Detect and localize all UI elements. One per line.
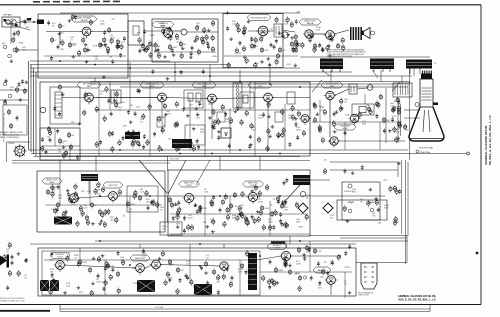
svg-text:.01: .01 bbox=[130, 105, 134, 107]
resistor Rs478 bbox=[286, 16, 289, 23]
CRT grid lines bbox=[422, 88, 432, 100]
ground gs475 bbox=[226, 11, 230, 15]
resistor Rs426 bbox=[397, 105, 400, 112]
resistor Rs529 bbox=[195, 35, 198, 42]
capacitor Cs524 bbox=[143, 134, 146, 139]
label pair 32 bbox=[128, 209, 133, 213]
resistor Rs339 bbox=[66, 255, 69, 262]
wire hot vert b bbox=[429, 305, 431, 312]
svg-text:HIGH LINE: HIGH LINE bbox=[170, 159, 180, 161]
label pair 58 bbox=[284, 207, 289, 211]
wire vbundle3 bbox=[33, 68, 35, 154]
wire drop x7 bbox=[344, 122, 346, 150]
wire drop V9 bbox=[211, 103, 213, 139]
wire vert connector 8 bbox=[259, 156, 261, 170]
wire drop x20 bbox=[309, 241, 311, 272]
capacitor Cs401 bbox=[268, 285, 271, 290]
wire audio2 bbox=[334, 30, 349, 34]
resistor Rs197 bbox=[318, 124, 321, 131]
resistor R36 bbox=[176, 210, 179, 217]
svg-text:.01: .01 bbox=[344, 283, 348, 285]
capacitor C15 bbox=[97, 273, 100, 278]
capacitor Cs415 bbox=[180, 70, 183, 75]
resistor R38 bbox=[210, 201, 213, 208]
ground gs154 bbox=[208, 116, 212, 120]
svg-text:1K: 1K bbox=[306, 197, 309, 199]
label pair 61 bbox=[360, 199, 364, 203]
capacitor Cs63 bbox=[253, 44, 256, 49]
capacitor Cs39 bbox=[139, 48, 142, 53]
resistor Rs44 bbox=[211, 46, 214, 53]
resistor Rs41 bbox=[138, 37, 141, 44]
svg-text:2.2K: 2.2K bbox=[352, 191, 357, 193]
resistor Rs103 bbox=[130, 132, 133, 139]
ladder Z1b bbox=[111, 90, 121, 103]
capacitor Cs271 bbox=[279, 212, 282, 217]
label pair 17 bbox=[226, 119, 230, 123]
IF wire 4 bbox=[272, 97, 310, 99]
svg-text:6.8K: 6.8K bbox=[200, 131, 205, 133]
IF divider 1 bbox=[149, 82, 151, 156]
capacitor Cs210 bbox=[383, 128, 386, 133]
tube V22 hor afc bbox=[54, 261, 67, 272]
tube V4 sound det bbox=[256, 26, 270, 38]
wire mixer bbox=[17, 49, 38, 51]
right section box A bbox=[342, 182, 380, 220]
label hor afc bbox=[50, 253, 70, 259]
resistor Rs456 bbox=[23, 88, 26, 95]
ground gs47 bbox=[154, 48, 158, 52]
svg-text:12K: 12K bbox=[60, 33, 64, 35]
resistor Rs489 bbox=[168, 26, 171, 33]
capacitor Cs445 bbox=[10, 22, 13, 27]
capacitor Clb1 bbox=[16, 115, 19, 120]
resistor Rs292 bbox=[274, 209, 277, 216]
resistor Rs225 bbox=[104, 209, 107, 216]
resistor Rs261 bbox=[268, 224, 271, 231]
wire vert sect a bbox=[45, 204, 162, 206]
ground gs46 bbox=[189, 55, 193, 59]
resistor Rs71 bbox=[294, 34, 297, 41]
ground gs327 bbox=[374, 197, 378, 201]
svg-text:12K: 12K bbox=[95, 59, 99, 61]
svg-text:.01: .01 bbox=[74, 257, 78, 259]
speaker voice coil bbox=[371, 31, 375, 35]
resistor Rs68 bbox=[243, 29, 246, 36]
capacitor C9 bbox=[49, 137, 52, 142]
label pair 59 bbox=[306, 195, 310, 199]
svg-text:VHF ANT.: VHF ANT. bbox=[3, 14, 13, 17]
capacitor Cs354 bbox=[245, 270, 248, 275]
capacitor C5 bbox=[191, 45, 194, 50]
capacitor Cs455 bbox=[18, 82, 21, 87]
label sound disc bbox=[103, 182, 123, 188]
resistor Rs153 bbox=[229, 117, 232, 124]
capacitor Cs218 bbox=[71, 199, 74, 204]
resistor Rs507 bbox=[3, 254, 6, 261]
pilot lamp2 bbox=[370, 208, 374, 212]
resistor Rs150 bbox=[221, 104, 224, 111]
fuse F1 bbox=[348, 184, 352, 188]
resistor Rs363 bbox=[176, 288, 179, 295]
capacitor Cs234 bbox=[67, 192, 70, 197]
svg-text:1M: 1M bbox=[146, 201, 149, 203]
junction dot 16 bbox=[149, 195, 151, 197]
wire tuner2 bbox=[91, 31, 128, 33]
selenium rectifier D1 bbox=[298, 203, 308, 213]
resistor Rs224 bbox=[51, 191, 54, 198]
left small comp1 bbox=[3, 82, 7, 86]
capacitor Cs429 bbox=[398, 100, 401, 105]
capacitor Cs77 bbox=[318, 43, 321, 48]
chassis text left bbox=[0, 131, 23, 139]
wire tuner row bbox=[44, 55, 126, 57]
junction dot 14 bbox=[211, 98, 213, 100]
mixer small circle bbox=[13, 48, 17, 52]
ground gs172 bbox=[271, 125, 275, 129]
svg-text:6BQ7A: 6BQ7A bbox=[81, 19, 88, 22]
resistor Rs171 bbox=[267, 128, 270, 135]
wire long bus lower2 bbox=[31, 153, 466, 155]
capacitor Cs1 bbox=[111, 59, 114, 64]
resistor Rs236 bbox=[81, 210, 84, 217]
capacitor Cs165 bbox=[295, 122, 298, 127]
wire hz3 bbox=[160, 265, 220, 267]
resistor R14 bbox=[290, 41, 297, 48]
svg-text:.005: .005 bbox=[252, 129, 257, 131]
junction dot 1 bbox=[94, 64, 96, 66]
label RF AMP bbox=[71, 16, 97, 22]
resistor Rs523 bbox=[146, 139, 149, 146]
vertical chassis text bbox=[484, 115, 492, 165]
resistor Rs308 bbox=[240, 211, 243, 218]
ground gs404 bbox=[348, 291, 352, 295]
junction dot 21 bbox=[299, 240, 301, 242]
label hor osc bbox=[130, 255, 150, 261]
label pair 39 bbox=[352, 189, 357, 193]
resistor Rs483 bbox=[195, 25, 198, 32]
wire right v3 bbox=[405, 160, 407, 264]
label pair 34 bbox=[176, 221, 181, 225]
svg-text:220K: 220K bbox=[258, 201, 263, 203]
svg-text:HOR AFC: HOR AFC bbox=[56, 253, 65, 256]
svg-text:ADMIRAL CHASSIS 18Y4B, 8S,: ADMIRAL CHASSIS 18Y4B, 8S, bbox=[398, 294, 436, 298]
resistor Rs419 bbox=[227, 62, 230, 69]
capacitor Cs423 bbox=[202, 69, 205, 74]
label pair 44 bbox=[120, 257, 125, 261]
capacitor Cs278 bbox=[281, 222, 284, 227]
resistor Rs186 bbox=[323, 109, 326, 116]
resistor Rs508 bbox=[8, 270, 11, 277]
capacitor Cs281 bbox=[281, 200, 284, 205]
capacitor Cs72 bbox=[292, 47, 295, 52]
resistor Rs30 bbox=[149, 52, 152, 59]
resistor Rs250 bbox=[101, 186, 104, 193]
resistor Rs195 bbox=[321, 137, 324, 144]
wire pw2 bbox=[290, 255, 340, 257]
vert box mid bbox=[168, 170, 310, 236]
svg-text:120: 120 bbox=[396, 131, 400, 133]
capacitor Cs498 bbox=[47, 20, 50, 25]
resistor R29 bbox=[46, 189, 55, 196]
svg-text:1K: 1K bbox=[62, 26, 65, 28]
svg-text:.01: .01 bbox=[70, 39, 74, 41]
capacitor Cs501 bbox=[138, 89, 141, 94]
capacitor Cs164 bbox=[249, 134, 252, 139]
resistor Rs488 bbox=[162, 27, 165, 34]
ground gs482 bbox=[162, 31, 166, 35]
CRT funnel inner gun bbox=[423, 110, 425, 132]
label pair 71 bbox=[318, 285, 322, 289]
wire sound det bias bbox=[312, 121, 402, 123]
resistor Rs240 bbox=[62, 211, 65, 218]
ground gs530 bbox=[266, 57, 270, 61]
hor coil 2 bbox=[194, 284, 212, 295]
capacitor Cs414 bbox=[283, 256, 286, 261]
svg-text:12K: 12K bbox=[395, 222, 399, 224]
junction dot 11 bbox=[279, 153, 281, 155]
svg-text:.05: .05 bbox=[229, 123, 233, 125]
capacitor Cs450 bbox=[4, 99, 7, 104]
junction dot 20 bbox=[199, 243, 201, 245]
capacitor Cs180 bbox=[296, 135, 299, 140]
resistor Rs221 bbox=[74, 191, 77, 198]
terminal M2b bbox=[382, 69, 384, 72]
label vert osc bbox=[243, 181, 264, 187]
IF can T5 bbox=[184, 90, 203, 108]
resistor Rs93 bbox=[115, 102, 118, 109]
wire vbundle2 bbox=[30, 65, 32, 153]
wire hz bus1 bbox=[95, 240, 408, 242]
junction dot 18 bbox=[279, 195, 281, 197]
osc small circle bbox=[3, 45, 7, 49]
wire bus2 bbox=[30, 64, 230, 66]
resistor Rs249 bbox=[54, 208, 57, 215]
wire vert connector 0 bbox=[94, 78, 96, 82]
resistor Rs326 bbox=[393, 185, 396, 192]
resistor R15 bbox=[313, 43, 322, 50]
wire right sec bbox=[330, 161, 398, 163]
svg-text:.047: .047 bbox=[203, 222, 208, 224]
resistor R34 bbox=[138, 195, 141, 202]
CRT socket box bbox=[393, 83, 412, 97]
resistor Rx2 bbox=[294, 47, 297, 54]
capacitor Cs263 bbox=[284, 199, 287, 204]
resistor Rs118 bbox=[174, 122, 177, 129]
ladder Z0 bbox=[55, 92, 62, 118]
svg-text:47K: 47K bbox=[123, 126, 127, 128]
label pair 68 bbox=[330, 261, 335, 265]
resistor R22 bbox=[318, 127, 321, 134]
capacitor Cs7 bbox=[50, 56, 53, 61]
resistor Rs182 bbox=[297, 110, 300, 117]
wire drop x16 bbox=[79, 248, 81, 260]
resistor R39 bbox=[229, 203, 238, 210]
capacitor Cs390 bbox=[344, 251, 347, 256]
label sound det 4BN6 bbox=[321, 82, 343, 88]
wire vert sect b bbox=[170, 213, 308, 215]
capacitor Cs497 bbox=[103, 30, 106, 35]
label pair 6 bbox=[176, 39, 181, 43]
capacitor Cs289 bbox=[183, 228, 186, 233]
capacitor Cs391 bbox=[331, 260, 334, 265]
notch wire b bbox=[406, 235, 408, 263]
label pair 53 bbox=[160, 207, 165, 211]
ground gs324 bbox=[369, 188, 373, 192]
svg-text:1M: 1M bbox=[330, 217, 333, 219]
tube V27 damper bbox=[325, 276, 338, 287]
ground gs78 bbox=[327, 44, 331, 48]
label socket bbox=[358, 293, 373, 297]
ground gs5 bbox=[72, 55, 76, 59]
svg-text:8.2K: 8.2K bbox=[264, 50, 269, 52]
svg-text:4AQ5A: 4AQ5A bbox=[307, 22, 314, 25]
capacitor Cs85 bbox=[321, 47, 324, 52]
arrow to M1 bbox=[322, 70, 330, 76]
wire drop x17 bbox=[104, 260, 106, 295]
ground gs272 bbox=[174, 202, 178, 206]
label pair 28 bbox=[396, 129, 400, 133]
svg-text:5.6K: 5.6K bbox=[284, 23, 289, 25]
label bar lv bbox=[271, 241, 285, 243]
label pair 1 bbox=[100, 21, 105, 25]
svg-text:FM SOUND DET: FM SOUND DET bbox=[251, 18, 268, 20]
resistor R7 bbox=[148, 41, 157, 48]
svg-text:HOWARD W. SAMS & CO. 1956: HOWARD W. SAMS & CO. 1956 bbox=[0, 299, 25, 302]
right section box B bbox=[337, 200, 387, 220]
svg-text:100K: 100K bbox=[250, 277, 255, 279]
label pair 23 bbox=[296, 127, 301, 131]
resistor Rs411 bbox=[337, 254, 340, 261]
svg-text:100K: 100K bbox=[100, 23, 105, 25]
svg-text:5U4GB: 5U4GB bbox=[274, 248, 281, 250]
resistor R44 bbox=[88, 267, 91, 274]
selenium rectifier D2 bbox=[323, 203, 333, 213]
border bottom bbox=[0, 304, 481, 306]
ground gs20 bbox=[100, 43, 104, 47]
label pair 42 bbox=[74, 255, 79, 259]
resistor Rs129 bbox=[158, 116, 161, 123]
label pair 21 bbox=[200, 129, 205, 133]
svg-text:6.8K: 6.8K bbox=[384, 207, 389, 209]
resistor Rs427 bbox=[403, 123, 406, 130]
resistor Rs265 bbox=[226, 214, 229, 221]
label pair 66 bbox=[250, 275, 255, 279]
label pair 69 bbox=[272, 281, 277, 285]
capacitor Cs503 bbox=[137, 88, 140, 93]
svg-text:47K: 47K bbox=[79, 292, 83, 294]
IF divider 3 bbox=[254, 82, 256, 156]
ground gs492 bbox=[58, 32, 62, 36]
resistor Rs472 bbox=[323, 168, 326, 175]
resistor R13 bbox=[278, 47, 286, 54]
ground gs29 bbox=[193, 39, 197, 43]
vert sub box bbox=[127, 186, 158, 212]
wire hor sect a bbox=[44, 259, 248, 261]
wire bus3 bbox=[30, 67, 300, 69]
label pair 13 bbox=[118, 107, 123, 111]
label pair 49 bbox=[58, 195, 63, 199]
resistor Rs374 bbox=[245, 250, 248, 257]
label pair 46 bbox=[186, 261, 191, 265]
resistor Rs397 bbox=[298, 285, 301, 292]
svg-text:47K: 47K bbox=[97, 194, 101, 196]
svg-text:6.8K: 6.8K bbox=[296, 221, 301, 223]
resistor Rs410 bbox=[272, 280, 275, 287]
label pair 12 bbox=[100, 91, 105, 95]
CRT base pins bbox=[422, 71, 432, 75]
label pair 37 bbox=[268, 219, 273, 223]
capacitor Cs353 bbox=[217, 290, 220, 295]
capacitor C7 bbox=[322, 47, 325, 52]
resistor Rs220 bbox=[133, 193, 136, 200]
resistor Rs124 bbox=[177, 144, 180, 151]
label pair 60 bbox=[330, 215, 334, 219]
resistor Rs329 bbox=[367, 200, 370, 207]
capacitor Cs377 bbox=[103, 286, 106, 291]
wire vert connector 15 bbox=[285, 241, 287, 248]
resistor R20 bbox=[367, 106, 370, 113]
junction dot 2 bbox=[129, 67, 131, 69]
ground gs359 bbox=[63, 291, 67, 295]
tuner turret bbox=[13, 144, 27, 158]
ground gs504 bbox=[113, 99, 117, 103]
resistor R28 bbox=[64, 150, 67, 157]
capacitor Cs409 bbox=[303, 256, 306, 261]
label pair 15 bbox=[166, 111, 171, 115]
resistor Rs496 bbox=[71, 14, 74, 21]
capacitor Cs349 bbox=[194, 284, 197, 289]
capacitor Cs367 bbox=[112, 267, 115, 272]
resistor Rlb1 bbox=[7, 109, 10, 116]
svg-text:T4: T4 bbox=[434, 63, 437, 65]
ground g3 bbox=[260, 60, 264, 64]
capacitor Cs206 bbox=[313, 102, 316, 107]
ground gs393 bbox=[276, 281, 280, 285]
resistor Rs433 bbox=[258, 190, 261, 197]
label FM det bbox=[247, 15, 271, 21]
resistor Rs512 bbox=[17, 270, 20, 277]
resistor Rs282 bbox=[295, 202, 298, 209]
resistor Rs330 bbox=[49, 289, 52, 296]
border top bbox=[0, 4, 481, 6]
svg-text:12K: 12K bbox=[81, 191, 85, 193]
capacitor Cs526 bbox=[142, 145, 145, 150]
label pair 4 bbox=[160, 23, 165, 27]
svg-text:470: 470 bbox=[282, 50, 286, 52]
wire if bias bbox=[96, 109, 310, 111]
resistor Rs290 bbox=[223, 221, 226, 228]
svg-text:6AQ5: 6AQ5 bbox=[49, 181, 55, 184]
resistor Rs378 bbox=[46, 284, 49, 291]
resistor R48 bbox=[176, 267, 184, 274]
antenna coil L1 bbox=[6, 20, 10, 24]
resistor Rs98 bbox=[132, 130, 135, 137]
label pair 48 bbox=[238, 269, 243, 273]
resistor Rs149 bbox=[212, 109, 215, 116]
svg-text:56: 56 bbox=[163, 125, 166, 127]
wire drop M2 bbox=[380, 70, 382, 82]
svg-text:RF INTERFERENCE: RF INTERFERENCE bbox=[358, 293, 373, 295]
resistor Rs55 bbox=[275, 58, 278, 65]
resistor Rs79 bbox=[341, 37, 344, 44]
ground gs424 bbox=[294, 63, 298, 67]
resistor Rs213 bbox=[377, 102, 380, 109]
capacitor Cs430 bbox=[391, 117, 394, 122]
capacitor Cs144 bbox=[217, 135, 220, 140]
junction dot 7 bbox=[299, 86, 301, 88]
small left box bbox=[128, 21, 144, 45]
